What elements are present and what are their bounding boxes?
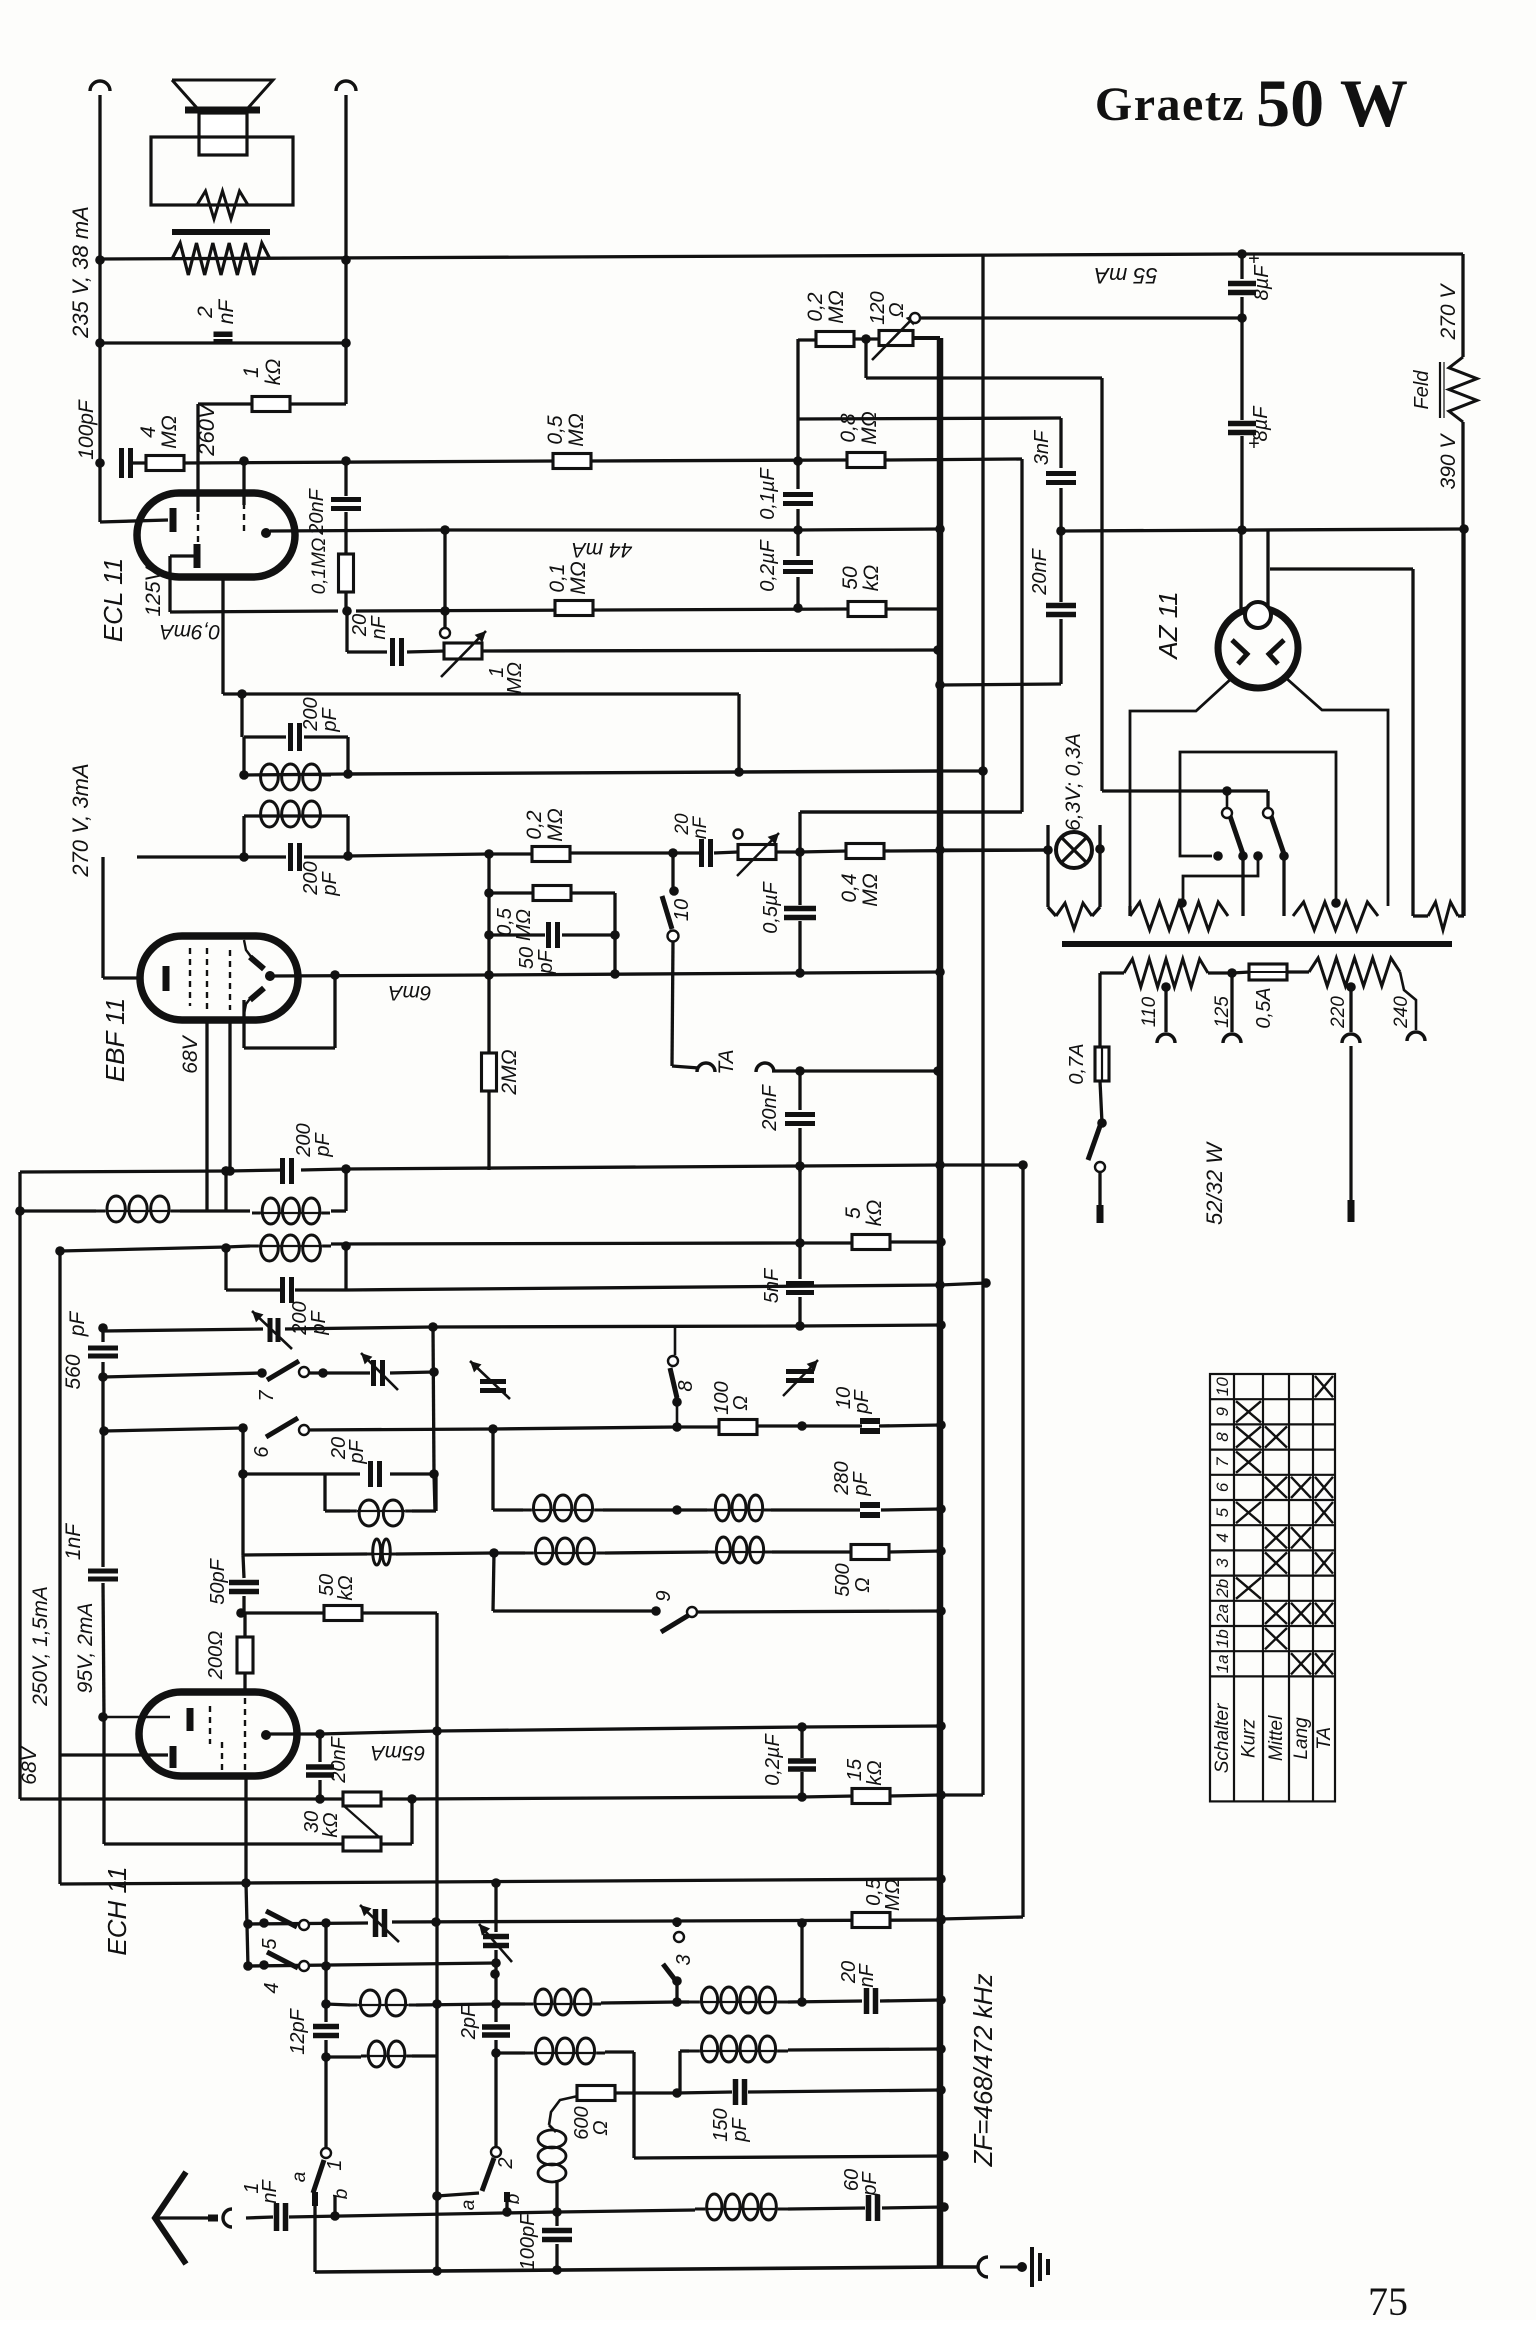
- svg-text:pF: pF: [850, 1471, 872, 1497]
- svg-text:9: 9: [653, 1590, 675, 1601]
- svg-text:Ω: Ω: [730, 1395, 752, 1410]
- capacitor 20nF ECH: [306, 1767, 334, 1775]
- EBF diode plates: [250, 957, 264, 969]
- fuse 0,5A: [1249, 964, 1287, 980]
- svg-text:Ω: Ω: [590, 2120, 612, 2135]
- wire: x800 5nF col: [798, 1166, 801, 1279]
- svg-text:0,4: 0,4: [838, 873, 861, 902]
- trimmer cap x800 (IF1): [786, 1372, 814, 1381]
- wire: x245 osc grid chain: [243, 1555, 244, 1578]
- resistor 0,4MOhm: [846, 844, 884, 859]
- wire: 220 tap: [1349, 987, 1352, 1032]
- svg-text:ECH 11: ECH 11: [102, 1866, 132, 1955]
- wire: y418 branch to 3nF: [798, 418, 1061, 419]
- svg-text:MΩ: MΩ: [858, 411, 881, 444]
- resistor 0,5MOhm (osc): [852, 1913, 890, 1928]
- capacitor 0,1uF: [783, 495, 813, 504]
- wire: row B y1374: [103, 1373, 262, 1377]
- tube EBF11: [140, 936, 298, 1020]
- wire: x494 1553->1612: [493, 1553, 494, 1611]
- EBF inner grids dashed: [190, 948, 230, 1010]
- switch 30k double resistor: [343, 1792, 381, 1806]
- resistor 0,5MOhm EBF: [533, 886, 571, 901]
- svg-text:110: 110: [1139, 996, 1160, 1027]
- svg-text:1nF: 1nF: [62, 1523, 85, 1560]
- wire: row y1510 osc: [493, 1508, 523, 1511]
- wire: rail y530 left: [270, 530, 445, 531]
- resistor 100 Ohm: [719, 1420, 757, 1435]
- wire: left vertical from antenna hook to ECL grid: [98, 95, 101, 522]
- svg-text:ZF=468/472 kHz: ZF=468/472 kHz: [968, 1974, 998, 2168]
- switch 9: [661, 1615, 689, 1632]
- wire: x434 spine upper: [433, 1327, 434, 1474]
- wire: x496 switch2 drop: [494, 2053, 497, 2147]
- capacitor 2pF: [482, 2027, 510, 2035]
- svg-text:20nF: 20nF: [759, 1083, 781, 1131]
- coil 2050 row left: [361, 2041, 412, 2067]
- svg-text:MΩ: MΩ: [513, 909, 535, 941]
- wire: row y1246 (IF1 sec top): [60, 1247, 226, 1251]
- wire: rail y609: [170, 611, 338, 612]
- coil 2005 row: [350, 1990, 416, 2016]
- svg-text:MΩ: MΩ: [544, 808, 567, 841]
- svg-text:50: 50: [839, 566, 862, 590]
- svg-text:nF: nF: [856, 1963, 878, 1988]
- wire: row y1923 switch5: [248, 1923, 368, 1924]
- coil row1553 b: [525, 1538, 605, 1564]
- capacitor 8uF lower: [1228, 424, 1256, 433]
- tube AZ11: [1218, 608, 1298, 688]
- wire: 240 tap: [1400, 972, 1416, 1030]
- capacitor 560pF: [88, 1348, 118, 1356]
- svg-text:5nF: 5nF: [761, 1267, 783, 1303]
- capacitor 3nF: [1046, 474, 1076, 483]
- capacitor 20nF (ECL screen): [331, 500, 361, 509]
- wire: ECH g2 lead: [60, 1753, 168, 1756]
- wire: speaker right vertical: [344, 95, 347, 343]
- heater winding: [1048, 907, 1056, 916]
- svg-text:0,1µF: 0,1µF: [757, 466, 779, 519]
- svg-text:75: 75: [1368, 2279, 1408, 2320]
- wire: IF2 secondary tank: [242, 816, 245, 857]
- tube ECL11: [137, 493, 295, 577]
- capacitor 50pF EBF: [549, 922, 558, 948]
- wire: 260V net: x346 down, 1k row, x198 down: [344, 343, 347, 404]
- wire: x798 0,2uF col to rail609: [796, 530, 799, 556]
- svg-text:a: a: [289, 2172, 310, 2183]
- svg-text:8µF: 8µF: [1250, 405, 1272, 442]
- selector switch arms: [1222, 808, 1232, 818]
- capacitor 100pF: [122, 448, 131, 478]
- wire: EBF cathode x207: [205, 1019, 208, 1211]
- potentiometer 1MOhm volume: [444, 643, 482, 659]
- svg-text:Schalter: Schalter: [1212, 1703, 1233, 1773]
- svg-text:5: 5: [842, 1207, 865, 1219]
- wire: x1238 8uF chain: [1240, 254, 1243, 279]
- wire: IF2 primary tank: [242, 737, 245, 775]
- wire: 3nF to rail530: [1059, 488, 1062, 531]
- svg-text:kΩ: kΩ: [262, 359, 285, 386]
- capacitor 5nF: [786, 1284, 814, 1293]
- svg-text:50pF: 50pF: [207, 1557, 229, 1604]
- mains plug blobs: [1097, 1205, 1104, 1223]
- svg-text:250V, 1,5mA: 250V, 1,5mA: [29, 1586, 52, 1707]
- svg-text:68V: 68V: [18, 1745, 41, 1784]
- svg-text:Kurz: Kurz: [1239, 1718, 1260, 1758]
- wire: x494 rowC->1510: [491, 1429, 494, 1510]
- secondary row: [1100, 971, 1124, 974]
- output transformer core: [172, 229, 270, 235]
- svg-text:560: 560: [62, 1354, 85, 1389]
- wire: ECL pentode grid lead: [170, 554, 197, 557]
- wire: row y1799 long: [20, 1797, 344, 1800]
- wire: y791 switch feed: [1102, 789, 1268, 792]
- switch 2: [491, 2147, 501, 2157]
- svg-text:1: 1: [324, 2159, 346, 2170]
- svg-text:2: 2: [194, 306, 217, 319]
- tube ECH11: [139, 1692, 297, 1776]
- svg-text:a: a: [458, 2200, 479, 2211]
- svg-text:MΩ: MΩ: [504, 662, 526, 694]
- IF2 coil top: [250, 764, 331, 790]
- coil row1553 a: [367, 1539, 396, 1565]
- capacitor 0,5uF: [784, 909, 816, 918]
- svg-text:270 V: 270 V: [1437, 283, 1460, 341]
- coil row1510 a: [523, 1495, 603, 1521]
- svg-text:20nF: 20nF: [306, 487, 328, 535]
- svg-text:7: 7: [1213, 1457, 1232, 1467]
- lamp 6,3V: [1056, 832, 1092, 868]
- wire: antenna row y2215: [157, 2216, 211, 2219]
- capacitor 20nF TA: [785, 1115, 815, 1124]
- svg-text:pF: pF: [319, 707, 341, 733]
- ECL anode pin: [261, 528, 271, 538]
- single coil left: [96, 1196, 180, 1222]
- ECL inner dashes: [198, 503, 244, 556]
- IF1 coil secondary: [250, 1235, 331, 1261]
- wire: x1463 right edge + 390V: [1461, 254, 1464, 357]
- svg-text:kΩ: kΩ: [863, 1200, 886, 1227]
- svg-text:TA: TA: [715, 1049, 738, 1074]
- svg-text:6,3V; 0,3A: 6,3V; 0,3A: [1062, 733, 1085, 831]
- svg-text:0,7A: 0,7A: [1066, 1043, 1088, 1084]
- svg-text:3: 3: [673, 1954, 695, 1965]
- wire: x346 col: 20nF,0.1M: [344, 461, 347, 496]
- switch 6: [266, 1418, 298, 1437]
- wire: switch1 circuits: [313, 2199, 316, 2272]
- capacitor 1nF ant: [277, 2203, 286, 2231]
- wire: x983 tall line: [981, 255, 984, 1795]
- switch 1: [321, 2148, 331, 2158]
- wire: x326 band coil feed: [324, 1923, 327, 2022]
- transformer aux winding: [1428, 902, 1458, 930]
- svg-text:kΩ: kΩ: [320, 1812, 342, 1837]
- wire: x1061 20nF col: [1059, 531, 1062, 602]
- svg-text:pF: pF: [851, 1389, 873, 1415]
- wire: rail y1172: [20, 1171, 228, 1172]
- wire: tank sides/bottom (osc BC tank): [323, 1474, 326, 1511]
- svg-text:0,9mA: 0,9mA: [160, 620, 221, 643]
- wire: lamp leads: [1046, 825, 1049, 907]
- trimmer cap x493: [480, 1382, 506, 1391]
- svg-text:12pF: 12pF: [287, 2007, 309, 2054]
- svg-text:EBF 11: EBF 11: [100, 998, 130, 1082]
- svg-text:pF: pF: [312, 1132, 334, 1158]
- resistor 600 Ohm: [577, 2086, 615, 2101]
- transformer core bar: [1062, 941, 1452, 947]
- switch 8: [674, 1326, 677, 1355]
- IF2 cap 200pF top: [291, 723, 300, 751]
- capacitor 20nF (bus right): [1046, 606, 1076, 615]
- svg-text:65mA: 65mA: [371, 1741, 426, 1764]
- resistor 0,1MOhm vertical: [339, 554, 354, 592]
- svg-text:0,2: 0,2: [804, 292, 827, 322]
- svg-text:nF: nF: [259, 2179, 281, 2204]
- potentiometer 120 Ohm: [879, 331, 913, 346]
- svg-text:MΩ: MΩ: [565, 413, 588, 446]
- wire: grid-leak row y652: [345, 611, 348, 652]
- wire: 600ohm row y2093: [614, 2091, 677, 2094]
- wire: IF1 primary tank: [224, 1171, 227, 1211]
- svg-text:AZ 11: AZ 11: [1153, 591, 1183, 660]
- svg-text:0,2µF: 0,2µF: [757, 538, 779, 591]
- svg-text:5: 5: [259, 1938, 281, 1950]
- capacitor 20nF audio: [702, 839, 711, 867]
- svg-text:0,1: 0,1: [546, 563, 569, 592]
- svg-text:MΩ: MΩ: [825, 290, 848, 323]
- wire: row y2158: [634, 2156, 944, 2158]
- svg-text:kΩ: kΩ: [860, 565, 883, 592]
- capacitor 12pF: [313, 2027, 339, 2036]
- resistor 50kOhm: [848, 602, 886, 617]
- svg-text:0,5µF: 0,5µF: [760, 880, 782, 933]
- wire: row C y1429: [104, 1428, 243, 1431]
- svg-text:pF: pF: [346, 1439, 368, 1465]
- output transformer primary: [172, 243, 270, 275]
- wire: osc coil bottom to row2212: [555, 2180, 558, 2212]
- antenna: [155, 2172, 186, 2264]
- wire: row 50k y1613: [245, 1611, 325, 1614]
- svg-text:pF: pF: [319, 871, 341, 897]
- wire: rail y772 (IF2 primary bottom to x983): [244, 774, 348, 775]
- wire: x1022 right feed down: [1020, 459, 1023, 812]
- IF1 cap 200pF bottom: [283, 1277, 292, 1303]
- wire: 2nF row: [100, 341, 346, 344]
- svg-text:7: 7: [256, 1390, 278, 1402]
- osc tank coil: [350, 1500, 412, 1526]
- wire: 1M pot wiper: [443, 530, 446, 628]
- wire: EBF diode loop: [333, 975, 336, 1048]
- svg-text:9: 9: [1213, 1407, 1232, 1417]
- resistor 0,5MOhm: [553, 454, 591, 469]
- svg-text:1b: 1b: [1213, 1629, 1232, 1648]
- wire: row y855 long (IF2 sec bottom to lamp): [137, 855, 244, 858]
- resistor 0,1MOhm row609: [555, 601, 593, 616]
- wire: x60 95V line: [58, 1251, 61, 1884]
- wire: x677 coupling: [675, 1982, 678, 2002]
- wire: bottom rail y2271: [315, 2267, 946, 2272]
- svg-text:6: 6: [1213, 1482, 1232, 1492]
- wire: AZ11 right plate outer loop: [1286, 678, 1388, 906]
- wire: row y2057: [326, 2055, 361, 2058]
- svg-text:240: 240: [1391, 996, 1412, 1029]
- capacitor 50pF osc: [229, 1583, 259, 1592]
- capacitor 150pF: [736, 2079, 745, 2105]
- svg-text:2b: 2b: [1213, 1579, 1232, 1599]
- svg-text:220: 220: [1328, 996, 1349, 1029]
- svg-text:MΩ: MΩ: [859, 873, 882, 906]
- capacitor 20pF: [371, 1461, 380, 1487]
- wire: x243 switch6 branch: [241, 1428, 244, 1555]
- svg-text:b: b: [503, 2194, 524, 2205]
- svg-text:2MΩ: 2MΩ: [498, 1049, 521, 1095]
- wire: 0,2M/120 pot row y339: [798, 338, 816, 341]
- svg-text:260V: 260V: [194, 402, 219, 457]
- wire: 20pF row y1474 (tank top): [243, 1472, 360, 1475]
- wire: ECH cathode x246: [244, 1775, 247, 1883]
- wire: EBF anode rail y974: [270, 975, 489, 976]
- svg-text:MΩ: MΩ: [882, 1879, 904, 1911]
- svg-text:2: 2: [495, 2157, 517, 2169]
- svg-text:500: 500: [832, 1563, 854, 1596]
- resistor 500 Ohm: [851, 1545, 889, 1560]
- wire: x800 0,5uF col: [798, 812, 801, 905]
- IF1 coil primary: [252, 1198, 330, 1224]
- wire: 0,5M/50p cluster: [487, 854, 490, 893]
- svg-text:235 V, 38 mA: 235 V, 38 mA: [68, 206, 93, 339]
- transformer mains winding: [1293, 902, 1378, 930]
- svg-text:3: 3: [1213, 1558, 1232, 1568]
- mains switch: [1088, 1126, 1100, 1160]
- wire: pot wiper row y318: [916, 316, 1242, 319]
- wire: row A y1326: [103, 1329, 263, 1331]
- AZ11 filament chevrons: [1232, 640, 1247, 664]
- wire: screen rail y463: [133, 461, 147, 464]
- resistor 5kOhm: [852, 1235, 890, 1250]
- wire: rail y530 right: [1061, 529, 1463, 531]
- svg-text:55 mA: 55 mA: [1094, 263, 1158, 288]
- ECL grid bar2: [194, 544, 201, 568]
- EBF cathode bar: [163, 966, 170, 991]
- wire: row y2004: [326, 2004, 350, 2005]
- osc vertical coil: [538, 2130, 566, 2182]
- ground symbol: [978, 2257, 988, 2277]
- svg-text:Lang: Lang: [1291, 1717, 1312, 1760]
- wire: 600ohm left bend to osc coil: [549, 2096, 578, 2125]
- coil 2004 row mid: [525, 1989, 601, 2015]
- transformer rectifier winding: [1128, 906, 1131, 916]
- wire: x802 0,2uF col: [800, 1727, 803, 1758]
- svg-text:ECL 11: ECL 11: [98, 558, 128, 642]
- svg-text:nF: nF: [215, 299, 238, 325]
- svg-text:10: 10: [671, 899, 693, 921]
- svg-text:pF: pF: [308, 1310, 330, 1336]
- wire: AZ11 top leads: [1239, 530, 1242, 609]
- wire: 125 tap: [1230, 973, 1233, 1032]
- svg-text:0,5A: 0,5A: [1253, 987, 1275, 1028]
- resistor Feld: [1449, 357, 1477, 422]
- resistor 0,2MOhm AF: [532, 847, 570, 862]
- wire junction dots: [95, 255, 105, 265]
- trimmer cap rowB: [374, 1360, 383, 1386]
- wire: 0,7A fuse drop: [1098, 973, 1101, 1047]
- svg-text:Graetz: Graetz: [1095, 78, 1245, 131]
- wire: x104 down to 1nF/ECH: [101, 1377, 104, 1567]
- resistor 2MOhm: [482, 1053, 497, 1091]
- wire: x103 EBF grid: [101, 857, 104, 978]
- svg-text:Ω: Ω: [886, 302, 908, 317]
- resistor 0,8MOhm: [847, 453, 885, 468]
- resistor 200 Ohm: [237, 1637, 253, 1673]
- IF1 cap 200pF: [283, 1158, 292, 1184]
- taps labels/hooks: [1157, 1034, 1175, 1043]
- svg-text:0,2: 0,2: [523, 810, 546, 840]
- svg-text:270 V, 3mA: 270 V, 3mA: [68, 763, 93, 877]
- svg-text:0,2µF: 0,2µF: [762, 1732, 784, 1785]
- svg-text:kΩ: kΩ: [864, 1760, 886, 1785]
- EBF anode pin: [265, 971, 275, 981]
- capacitor 20nF (grid): [393, 638, 402, 666]
- speaker field zigzag: [197, 191, 248, 219]
- capacitor 280pF: [860, 1505, 880, 1515]
- svg-text:95V, 2mA: 95V, 2mA: [74, 1603, 97, 1694]
- svg-text:pF: pF: [729, 2117, 751, 2143]
- wire: lamp row from bus: [940, 848, 1048, 851]
- capacitor 10pF: [860, 1421, 880, 1431]
- wire: x802 to 20nF row: [800, 1923, 803, 2002]
- resistor 1kOhm: [252, 397, 290, 412]
- capacitor 1nF: [88, 1571, 118, 1579]
- svg-text:52/32 W: 52/32 W: [1202, 1141, 1227, 1225]
- ECH bars: [187, 1708, 194, 1731]
- wire: anode row y1733: [270, 1732, 320, 1735]
- svg-text:8µF: 8µF: [1251, 264, 1273, 301]
- coil 2003 row: [689, 1987, 788, 2013]
- svg-text:125: 125: [1212, 996, 1233, 1028]
- wire: row y1966 switch4: [248, 1963, 496, 1966]
- wire: 100pF col: [555, 2212, 558, 2226]
- wire: bus top corner from pot: [913, 336, 940, 340]
- IF2 cap 200pF bottom: [291, 843, 300, 871]
- svg-text:0,5: 0,5: [544, 415, 567, 445]
- switch table: [1210, 1374, 1335, 1801]
- svg-text:100pF: 100pF: [75, 399, 98, 460]
- svg-text:MΩ: MΩ: [158, 415, 181, 448]
- wire: row y1844: [104, 1842, 344, 1845]
- svg-text:Mittel: Mittel: [1266, 1715, 1287, 1761]
- svg-text:15: 15: [844, 1758, 866, 1781]
- wire: y378 branch to x1102: [864, 340, 867, 378]
- wire: x1413/x1464 to aux winding: [1462, 914, 1465, 917]
- svg-text:44 mA: 44 mA: [572, 538, 633, 561]
- wire: AZ11 left plate loop: [1130, 678, 1232, 906]
- wire: ECL cathode y694: [221, 576, 224, 694]
- wire: x798 0,1uF col: [796, 461, 799, 489]
- switch 7: [267, 1361, 299, 1380]
- wire: TA right hook to 20nF: [772, 1069, 800, 1072]
- wire: x244 screen into ECL: [242, 461, 245, 505]
- resistor 4MOhm: [146, 456, 184, 471]
- svg-text:0,1MΩ: 0,1MΩ: [309, 538, 330, 595]
- switch 3: [674, 1932, 684, 1942]
- svg-text:MΩ: MΩ: [567, 561, 590, 594]
- speaker: [172, 80, 273, 108]
- wire: x798 col top: [796, 339, 799, 461]
- svg-text:kΩ: kΩ: [335, 1575, 357, 1600]
- wire: row y2053 right (to x634): [496, 2051, 525, 2054]
- svg-text:2pF: 2pF: [458, 2003, 480, 2040]
- wire: selector L-wire to tap: [1183, 858, 1258, 903]
